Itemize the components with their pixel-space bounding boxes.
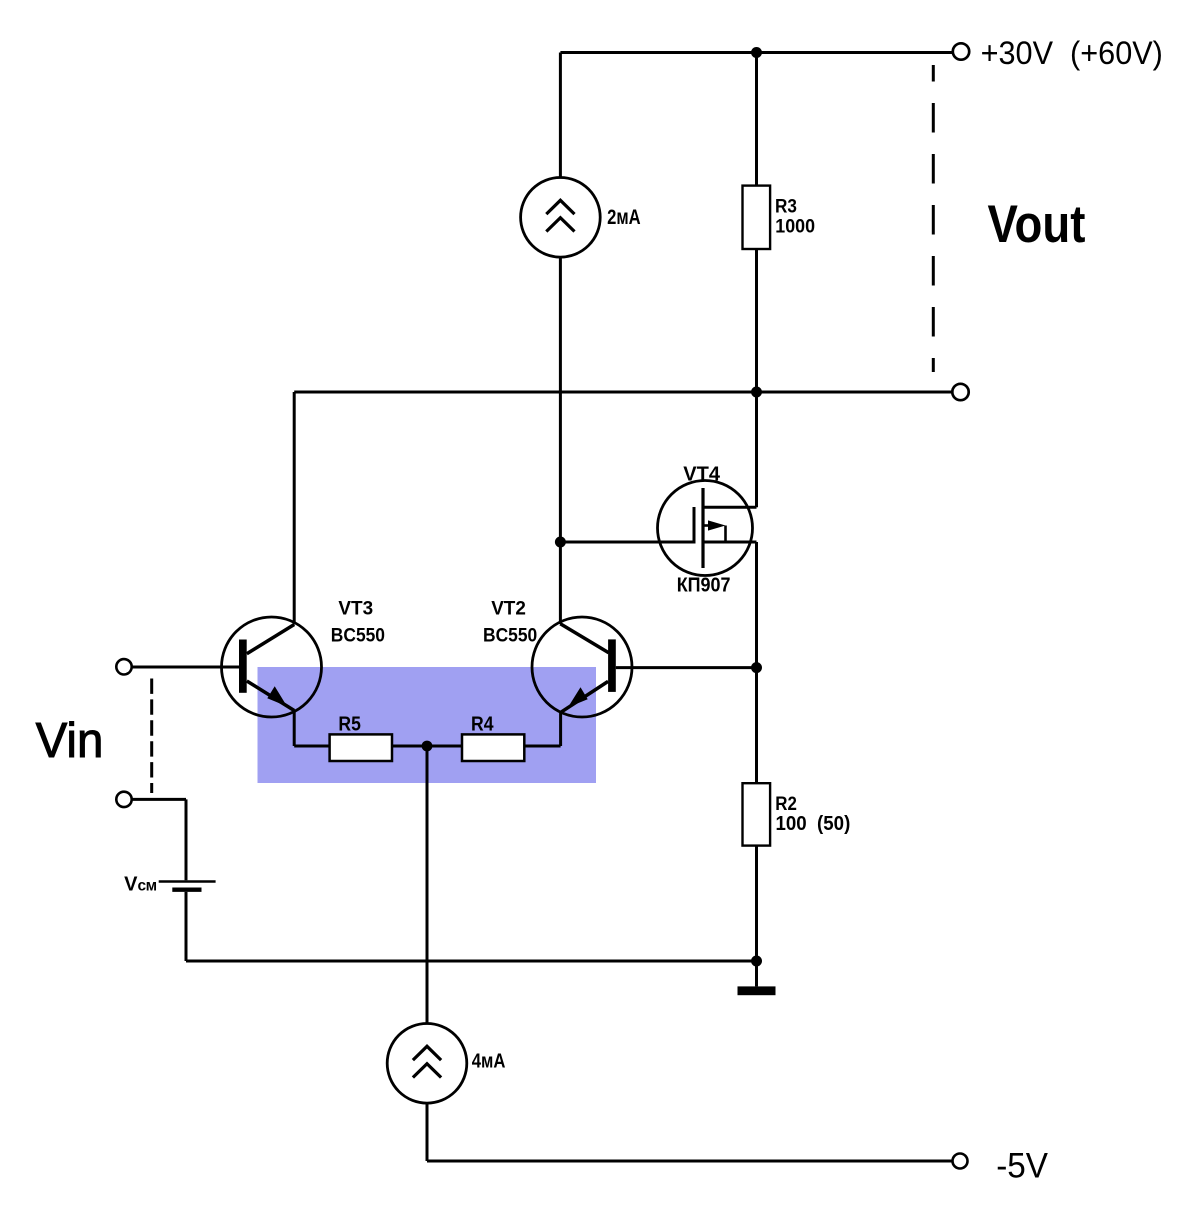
current source I2 4mA circle [387,1024,467,1104]
transistor VT3 BJT [222,617,322,717]
svg-text:Vin: Vin [36,714,104,768]
svg-text:2мА: 2мА [607,206,641,229]
wire VT4 gate lead [560,541,694,544]
wire top rail to current source I1 [559,53,562,178]
transistor VT4 MOSFET [658,481,757,576]
wire +30V top rail [560,51,952,54]
node junction dot gate / VT2 collector [555,537,566,548]
resistor R4 [462,734,524,761]
terminal +30V [953,43,969,59]
wire dashed Vin [150,679,153,794]
wire dashed Vout probe [932,65,935,372]
current source I1 2mA circle [521,178,601,258]
svg-text:КП907: КП907 [677,575,731,597]
current source I1 chevron arrows [546,200,574,231]
current source I2 chevron arrows [413,1046,441,1077]
terminal Vout [952,384,968,400]
wire center node to R4 [427,745,462,748]
wire VT2 base lead [616,666,757,669]
resistor R3 [743,186,771,249]
wire emitter node to current source I2 [426,746,429,1024]
node junction dot VT2 base / R2 [751,662,762,673]
wire R4 to VT2 emitter [524,712,560,746]
wire R3 branch from top rail [755,53,758,186]
svg-text:BC550: BC550 [331,625,385,647]
svg-text:R3: R3 [775,196,797,218]
svg-text:+30V (+60V): +30V (+60V) [981,35,1163,71]
wire VT3 emitter to R5 [294,711,329,747]
svg-text:R5: R5 [338,713,361,736]
svg-text:VT4: VT4 [683,464,721,486]
node junction dot Vout rail / VT4 drain [751,387,762,398]
highlight box around R5 R4 (degeneration resistors) [258,667,597,783]
svg-text:R4: R4 [471,713,494,736]
transistor VT2 BJT [532,617,632,717]
node junction dot top rail / R3 [751,47,762,58]
svg-text:-5V: -5V [996,1147,1048,1186]
wire VT3 base lead [132,666,239,669]
svg-text:R2: R2 [775,793,797,815]
terminal -5V [953,1154,968,1169]
wire ground stub [755,961,758,986]
ground symbol [738,986,776,995]
wire VT3 collector to Vout rail [293,392,296,625]
wire Vout rail [294,391,952,394]
resistor R5 [330,734,392,761]
wire battery to ground rail [186,892,757,961]
terminal Vin- [116,792,131,807]
svg-text:1000: 1000 [775,215,815,237]
svg-text:Vсм: Vсм [124,874,157,896]
terminal Vin+ [116,659,131,674]
node junction dot emitter resistors [422,741,433,752]
battery Vcm [159,882,216,890]
node junction dot ground [751,956,762,967]
wire R2 to ground node [755,846,758,961]
svg-text:VT2: VT2 [491,597,526,619]
wire current source I1 to VT2 collector [559,257,562,624]
resistor R2 [743,783,771,845]
wire R5 to center node [392,745,427,748]
svg-text:Vout: Vout [988,195,1086,254]
wire VT4 drain vertical [755,392,758,507]
svg-text:100 (50): 100 (50) [776,813,851,835]
wire current source I2 to -5V rail [427,1103,953,1161]
svg-text:4мА: 4мА [472,1050,506,1073]
wire Vin- to battery [132,799,186,880]
svg-text:BC550: BC550 [483,625,537,647]
wire R3 to Vout rail [755,249,758,392]
wire VT4 source vertical [755,542,758,783]
svg-text:VT3: VT3 [338,597,373,619]
